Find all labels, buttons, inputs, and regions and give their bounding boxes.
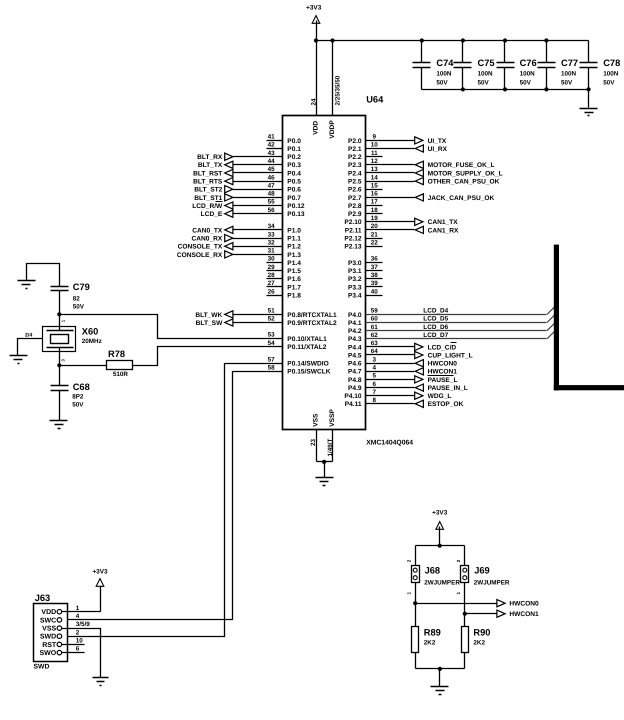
wire R90 bottom	[464, 653, 466, 669]
svg-text:P2.1: P2.1	[348, 146, 362, 153]
svg-text:BLT_RST: BLT_RST	[193, 170, 222, 177]
svg-text:+3V3: +3V3	[432, 510, 448, 517]
wire C79 top to ground	[27, 264, 60, 287]
svg-text:P0.14/SWDIO: P0.14/SWDIO	[287, 361, 328, 368]
pin number 23 (VSS)	[310, 438, 317, 446]
svg-text:OTHER_CAN_PSU_OK: OTHER_CAN_PSU_OK	[428, 179, 500, 186]
svg-text:P0.13: P0.13	[287, 211, 305, 218]
junction cap bottom	[461, 87, 465, 91]
svg-text:P0.7: P0.7	[287, 195, 301, 202]
svg-text:20: 20	[371, 223, 379, 230]
svg-text:64: 64	[371, 348, 379, 355]
svg-text:2: 2	[406, 559, 411, 562]
pin 13 P2.4 (MOTOR_SUPPLY_OK_L)	[348, 166, 503, 177]
wire XTAL2 to R78	[60, 365, 107, 367]
svg-text:P0.1: P0.1	[287, 146, 301, 153]
svg-text:XMC1404Q064: XMC1404Q064	[366, 439, 413, 446]
svg-text:LCD_E: LCD_E	[201, 211, 223, 218]
svg-text:53: 53	[268, 332, 276, 339]
pin 4 P4.7 (HWCON1)	[348, 365, 457, 376]
svg-text:38: 38	[371, 272, 379, 279]
svg-text:VDD: VDD	[312, 121, 319, 135]
svg-text:VSS: VSS	[42, 626, 56, 633]
pin 33 P1.1 (CAN0_RX)	[192, 231, 302, 242]
pin 26 P1.8	[267, 288, 302, 299]
svg-text:BLT_RX: BLT_RX	[197, 154, 223, 161]
svg-text:40: 40	[371, 288, 379, 295]
wire VDD	[316, 41, 318, 116]
label 2/4 (case pins)	[25, 332, 32, 338]
pin 18 P2.9	[348, 207, 382, 218]
svg-text:50V: 50V	[520, 80, 532, 87]
svg-text:BLT_ST2: BLT_ST2	[194, 187, 222, 194]
svg-text:17: 17	[371, 199, 379, 206]
wire VSSP	[332, 430, 334, 462]
pin 10 J63 RST	[42, 638, 83, 649]
pin 3 P4.6 (HWCON0)	[348, 356, 457, 367]
capacitor C79	[51, 282, 90, 315]
svg-text:U64: U64	[366, 94, 384, 104]
pin 11 P2.2	[348, 150, 382, 161]
svg-text:16: 16	[371, 191, 379, 198]
svg-text:50V: 50V	[478, 80, 490, 87]
svg-text:P3.3: P3.3	[348, 284, 362, 291]
wire resistor join	[416, 668, 465, 670]
svg-text:P2.0: P2.0	[348, 138, 362, 145]
svg-text:P1.3: P1.3	[287, 252, 301, 259]
pin 9 P2.0 (UI_TX)	[348, 134, 447, 145]
svg-text:R89: R89	[424, 628, 441, 638]
junction VDDP tap	[330, 38, 334, 42]
junction resistor gnd	[438, 667, 442, 671]
resistor R90	[462, 627, 491, 653]
pin number 1/49/T (VSSP)	[327, 438, 334, 456]
svg-text:HWCON0: HWCON0	[428, 361, 458, 368]
junction cap bottom	[587, 87, 591, 91]
svg-text:P0.2: P0.2	[287, 154, 301, 161]
svg-text:31: 31	[268, 248, 276, 255]
svg-text:11: 11	[371, 150, 378, 157]
svg-text:J69: J69	[474, 566, 490, 576]
svg-text:LCD_D6: LCD_D6	[423, 324, 448, 331]
svg-text:LCD_R/W: LCD_R/W	[192, 203, 223, 210]
wire SWCLK net	[62, 372, 283, 620]
capacitor C74	[413, 41, 455, 90]
svg-text:P2.2: P2.2	[348, 154, 362, 161]
svg-text:J63: J63	[35, 593, 51, 603]
pin 34 P1.0 (CAN0_TX)	[192, 223, 301, 234]
svg-text:29: 29	[268, 264, 276, 271]
pin 61 P4.2 (LCD_D6)	[348, 324, 554, 336]
pin 15 P2.6	[348, 182, 382, 193]
svg-text:2K2: 2K2	[424, 640, 436, 647]
power +3V3 (U64 supply)	[306, 5, 322, 24]
connector J68 2WJUMPER	[406, 559, 460, 594]
svg-text:19: 19	[371, 215, 379, 222]
svg-text:P4.3: P4.3	[348, 336, 362, 343]
svg-text:MOTOR_SUPPLY_OK_L: MOTOR_SUPPLY_OK_L	[428, 170, 503, 177]
crystal X60	[43, 315, 102, 366]
svg-text:ESTOP_OK: ESTOP_OK	[428, 401, 464, 408]
pin 48 P0.7 (BLT_ST1)	[194, 191, 301, 202]
wire +3V3 jumper stem	[439, 527, 441, 546]
svg-text:P3.1: P3.1	[348, 268, 362, 275]
svg-text:10: 10	[371, 142, 379, 149]
svg-text:2WJUMPER: 2WJUMPER	[424, 580, 460, 587]
svg-text:P0.5: P0.5	[287, 179, 301, 186]
svg-text:27: 27	[268, 280, 276, 287]
svg-text:100N: 100N	[478, 71, 494, 78]
svg-text:2/4: 2/4	[25, 332, 32, 338]
power +3V3 (jumpers)	[432, 510, 448, 530]
label VSSP (inside)	[329, 409, 336, 427]
svg-text:20MHz: 20MHz	[82, 338, 102, 345]
pin 6 P4.9 (PAUSE_IN_L)	[348, 381, 468, 392]
svg-text:P3.0: P3.0	[348, 260, 362, 267]
svg-text:10: 10	[76, 638, 84, 645]
svg-text:4: 4	[76, 613, 80, 620]
svg-text:CONSOLE_RX: CONSOLE_RX	[177, 252, 223, 259]
svg-text:P4.9: P4.9	[348, 385, 362, 392]
svg-text:P4.4: P4.4	[348, 344, 362, 351]
wire R78 to pin 54	[133, 347, 283, 366]
svg-text:C74: C74	[436, 58, 454, 68]
svg-text:48: 48	[268, 191, 276, 198]
wire crystal case to ground	[18, 339, 43, 356]
svg-text:9: 9	[373, 134, 377, 141]
capacitor C75	[454, 41, 495, 90]
svg-text:45: 45	[268, 166, 276, 173]
wire J63 SWO stub	[62, 652, 85, 654]
svg-text:+3V3: +3V3	[92, 569, 108, 576]
svg-text:3/5/9: 3/5/9	[76, 621, 91, 628]
wire jumper rail	[416, 545, 465, 547]
wire J63 VDD	[62, 611, 101, 613]
svg-text:58: 58	[268, 364, 276, 371]
svg-text:46: 46	[268, 174, 276, 181]
capacitor C76	[497, 41, 537, 90]
svg-text:P1.0: P1.0	[287, 227, 301, 234]
junction cap top	[503, 38, 507, 42]
svg-text:P0.8/RTCXTAL1: P0.8/RTCXTAL1	[287, 312, 337, 319]
svg-text:BLT_TX: BLT_TX	[198, 162, 223, 169]
label J63	[35, 593, 51, 603]
label VSS (inside)	[312, 413, 319, 427]
wire XTAL1 to pin 53	[60, 315, 283, 339]
svg-text:C75: C75	[478, 58, 495, 68]
svg-text:50V: 50V	[73, 304, 85, 311]
junction cap top	[461, 38, 465, 42]
pin 47 P0.6 (BLT_ST2)	[194, 182, 301, 193]
wire HWCON0	[416, 603, 497, 605]
wire J68 to R89	[415, 583, 417, 627]
pin 63 P4.4 (LCD_C/D)	[348, 340, 456, 351]
pin 22 P2.13	[344, 239, 382, 250]
ground C68	[50, 421, 68, 429]
junction cap bottom	[544, 87, 548, 91]
svg-text:P1.6: P1.6	[287, 276, 301, 283]
svg-text:54: 54	[268, 340, 276, 347]
svg-text:P1.8: P1.8	[287, 293, 301, 300]
svg-text:CAN1_RX: CAN1_RX	[428, 227, 459, 234]
pin 46 P0.5 (BLT_RTS)	[193, 174, 301, 185]
svg-text:37: 37	[371, 264, 379, 271]
svg-text:8: 8	[373, 397, 377, 404]
pin 3/5/9 J63 VSS	[42, 621, 90, 632]
svg-text:UI_RX: UI_RX	[428, 146, 448, 153]
svg-text:CAN1_TX: CAN1_TX	[428, 219, 459, 226]
svg-text:R78: R78	[108, 349, 125, 359]
svg-text:24: 24	[311, 98, 318, 106]
svg-text:30: 30	[268, 256, 276, 263]
junction HWCON0	[413, 601, 417, 605]
label VDD (inside)	[312, 121, 319, 135]
pin number 24 (VDD)	[311, 98, 318, 106]
svg-text:P2.12: P2.12	[344, 236, 362, 243]
label XMC1404Q064	[366, 439, 413, 446]
capacitor C68	[51, 366, 90, 421]
svg-text:P0.15/SWCLK: P0.15/SWCLK	[287, 369, 330, 376]
svg-text:62: 62	[371, 332, 379, 339]
svg-text:P2.3: P2.3	[348, 162, 362, 169]
svg-text:UI_TX: UI_TX	[428, 138, 447, 145]
capacitor C78	[580, 41, 621, 90]
svg-text:P1.2: P1.2	[287, 244, 301, 251]
pin 31 P1.3 (CONSOLE_RX)	[177, 248, 301, 259]
pin 14 P2.5 (OTHER_CAN_PSU_OK)	[348, 174, 500, 185]
svg-text:P2.9: P2.9	[348, 211, 362, 218]
label VDDP (inside)	[329, 120, 336, 139]
svg-text:1: 1	[456, 592, 461, 595]
capacitor C77	[538, 41, 579, 90]
svg-text:P4.1: P4.1	[348, 320, 362, 327]
pin 2 J63 SWD	[40, 629, 80, 640]
svg-text:2: 2	[76, 629, 80, 636]
svg-text:42: 42	[268, 142, 276, 149]
svg-text:PAUSE_L: PAUSE_L	[428, 377, 458, 384]
svg-text:1: 1	[76, 605, 80, 612]
pin 32 P1.2 (CONSOLE_TX)	[178, 239, 302, 250]
svg-text:14: 14	[371, 174, 379, 181]
svg-text:P0.0: P0.0	[287, 138, 301, 145]
junction cap bottom	[503, 87, 507, 91]
pin 41 P0.0	[267, 134, 302, 145]
svg-text:59: 59	[371, 308, 379, 315]
pin 19 P2.10 (CAN1_TX)	[344, 215, 458, 226]
svg-text:510R: 510R	[113, 371, 129, 378]
svg-text:VDD: VDD	[41, 609, 56, 616]
pin 20 P2.11 (CAN1_RX)	[345, 223, 459, 234]
svg-text:22: 22	[371, 239, 379, 246]
pin 16 P2.7 (JACK_CAN_PSU_OK)	[348, 191, 495, 202]
pin 37 P3.1	[348, 264, 382, 275]
svg-text:P4.2: P4.2	[348, 328, 362, 335]
svg-text:CAN0_TX: CAN0_TX	[192, 227, 223, 234]
pin 5 P4.8 (PAUSE_L)	[348, 373, 458, 384]
ground crystal case	[10, 356, 28, 364]
junction VSS	[322, 460, 326, 464]
wire HWCON1	[465, 613, 497, 615]
pin 8 P4.11 (ESTOP_OK)	[345, 397, 464, 408]
pin 42 P0.1	[267, 142, 302, 153]
wire SWDIO net	[62, 364, 283, 637]
svg-text:LCD_D4: LCD_D4	[423, 308, 448, 315]
svg-text:P2.5: P2.5	[348, 179, 362, 186]
svg-text:P4.10: P4.10	[344, 393, 362, 400]
pin number 2/25/35/50 (VDDP)	[334, 75, 341, 105]
arrow HWCON0	[497, 600, 539, 608]
resistor R78	[107, 349, 133, 378]
svg-text:P2.7: P2.7	[348, 195, 362, 202]
wire J68 top	[415, 546, 417, 566]
ground J63 VSS	[93, 678, 109, 686]
svg-text:CUP_LIGHT_L: CUP_LIGHT_L	[428, 352, 473, 359]
svg-text:2K2: 2K2	[473, 640, 485, 647]
svg-text:BLT_SW: BLT_SW	[196, 320, 223, 327]
wire R89 bottom	[415, 653, 417, 669]
pin 1 J63 VDD	[41, 605, 79, 616]
svg-text:SWD: SWD	[40, 634, 56, 641]
svg-text:P0.11/XTAL2: P0.11/XTAL2	[287, 344, 326, 351]
svg-text:BLT_WK: BLT_WK	[195, 312, 222, 319]
svg-text:HWCON1: HWCON1	[428, 369, 458, 376]
svg-text:C76: C76	[520, 58, 537, 68]
wire J63 VSS	[62, 629, 101, 678]
svg-text:SWC: SWC	[40, 617, 56, 624]
svg-text:HWCON1: HWCON1	[509, 611, 539, 618]
pin 51 P0.8/RTCXTAL1 (BLT_WK)	[195, 308, 337, 319]
svg-text:P2.11: P2.11	[345, 227, 362, 234]
pin 4 J63 SWC	[40, 613, 80, 624]
svg-text:5: 5	[373, 373, 377, 380]
pin 53 P0.10/XTAL1	[268, 332, 328, 343]
svg-text:P1.7: P1.7	[287, 284, 301, 291]
svg-text:15: 15	[371, 182, 379, 189]
pin 27 P1.7	[267, 280, 302, 291]
svg-text:P3.4: P3.4	[348, 293, 362, 300]
svg-text:2WJUMPER: 2WJUMPER	[474, 580, 510, 587]
resistor R89	[412, 627, 441, 653]
svg-text:P4.11: P4.11	[345, 401, 362, 408]
IC U64 body	[283, 116, 366, 430]
wire cap bank bottom	[422, 89, 589, 91]
svg-text:51: 51	[268, 308, 276, 315]
wire cap bank to ground	[588, 90, 590, 108]
pin 56 P0.13 (LCD_E)	[201, 207, 305, 218]
svg-text:WDG_L: WDG_L	[428, 393, 452, 400]
ground cap bank	[580, 109, 598, 116]
svg-text:52: 52	[268, 316, 276, 323]
svg-text:LCD_C/D: LCD_C/D	[428, 344, 457, 351]
junction +3V3/VDD	[314, 38, 318, 42]
node XTAL2 junction	[57, 363, 61, 367]
pin 6 J63 SWO	[39, 646, 79, 657]
svg-text:55: 55	[268, 199, 276, 206]
svg-text:6: 6	[76, 646, 80, 653]
svg-text:100N: 100N	[436, 71, 452, 78]
svg-text:+3V3: +3V3	[306, 5, 322, 12]
svg-text:C79: C79	[73, 282, 90, 292]
svg-text:47: 47	[268, 182, 276, 189]
pin 28 P1.6	[267, 272, 302, 283]
svg-text:6: 6	[373, 381, 377, 388]
svg-text:P3.2: P3.2	[348, 276, 362, 283]
svg-text:PAUSE_IN_L: PAUSE_IN_L	[428, 385, 468, 392]
svg-text:P4.5: P4.5	[348, 352, 362, 359]
svg-text:56: 56	[268, 207, 276, 214]
svg-text:P0.9/RTCXTAL2: P0.9/RTCXTAL2	[287, 320, 337, 327]
label U64	[366, 94, 384, 104]
pin 7 P4.10 (WDG_L)	[344, 389, 451, 400]
node XTAL1 junction	[57, 312, 61, 316]
svg-text:R90: R90	[473, 628, 490, 638]
svg-text:C77: C77	[561, 58, 578, 68]
svg-text:P2.6: P2.6	[348, 187, 362, 194]
svg-text:J68: J68	[425, 566, 441, 576]
svg-text:P2.4: P2.4	[348, 170, 362, 177]
svg-text:100N: 100N	[561, 71, 577, 78]
pin 55 P0.12 (LCD_R/W)	[192, 199, 305, 210]
pin 64 P4.5 (CUP_LIGHT_L)	[348, 348, 473, 359]
svg-text:7: 7	[373, 389, 377, 396]
svg-text:2: 2	[456, 559, 461, 562]
pin 45 P0.4 (BLT_RST)	[193, 166, 301, 177]
svg-text:P2.13: P2.13	[344, 244, 362, 251]
wire VSS join	[317, 461, 333, 463]
svg-text:100N: 100N	[520, 71, 536, 78]
ground U64	[316, 478, 334, 486]
ground jumpers	[431, 687, 449, 695]
wire VSS to ground	[324, 462, 326, 478]
pin 62 P4.3 (LCD_D7)	[348, 332, 554, 344]
svg-text:LCD_D5: LCD_D5	[423, 316, 448, 323]
svg-text:BLT_ST1: BLT_ST1	[194, 195, 222, 202]
svg-text:SWD: SWD	[34, 664, 50, 671]
pin 39 P3.3	[348, 280, 382, 291]
svg-text:SWO: SWO	[39, 650, 56, 657]
svg-text:JACK_CAN_PSU_OK: JACK_CAN_PSU_OK	[428, 195, 495, 202]
pin 43 P0.2 (BLT_RX)	[197, 150, 301, 161]
wire J69 top	[464, 546, 466, 566]
svg-text:39: 39	[371, 280, 379, 287]
junction cap top	[420, 38, 424, 42]
wire +3V3 rail to capacitors	[317, 40, 589, 42]
pin 44 P0.3 (BLT_TX)	[198, 158, 301, 169]
svg-text:33: 33	[268, 231, 276, 238]
svg-text:VSS: VSS	[312, 413, 319, 427]
power +3V3 (J63)	[92, 569, 108, 587]
svg-text:50V: 50V	[603, 80, 615, 87]
svg-text:50V: 50V	[72, 402, 84, 409]
svg-text:P1.4: P1.4	[287, 260, 301, 267]
svg-text:2/25/35/50: 2/25/35/50	[334, 75, 341, 105]
pin 29 P1.5	[267, 264, 302, 275]
svg-text:34: 34	[268, 223, 276, 230]
svg-text:C78: C78	[603, 58, 620, 68]
svg-text:32: 32	[268, 239, 276, 246]
svg-text:CAN0_RX: CAN0_RX	[192, 236, 223, 243]
svg-text:P0.6: P0.6	[287, 187, 301, 194]
pin 52 P0.9/RTCXTAL2 (BLT_SW)	[196, 316, 337, 327]
bus LCD horizontal	[554, 385, 624, 390]
svg-text:4: 4	[373, 365, 377, 372]
svg-text:RST: RST	[42, 642, 57, 649]
connector J69 2WJUMPER	[456, 559, 510, 594]
pin 36 P3.0	[348, 256, 382, 267]
wire VDD riser	[100, 584, 102, 612]
pin 58 P0.15/SWCLK	[268, 364, 331, 375]
pin 54 P0.11/XTAL2	[268, 340, 327, 351]
